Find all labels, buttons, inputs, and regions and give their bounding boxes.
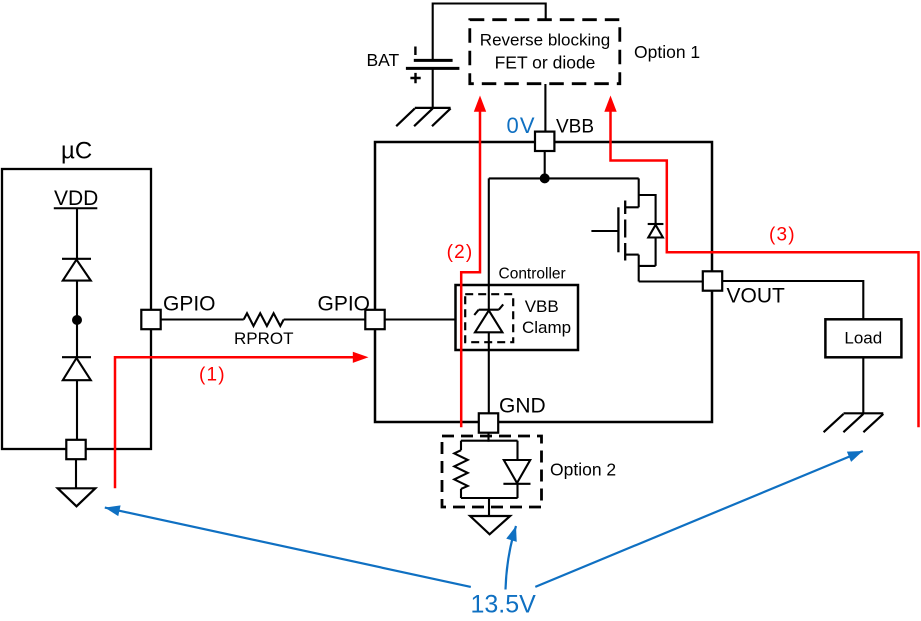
svg-text:Clamp: Clamp <box>522 318 571 337</box>
svg-text:Reverse blocking: Reverse blocking <box>480 31 610 50</box>
svg-text:BAT: BAT <box>367 50 400 70</box>
svg-text:Option 1: Option 1 <box>634 42 700 62</box>
svg-text:GPIO: GPIO <box>163 293 216 316</box>
svg-text:Option 2: Option 2 <box>550 460 616 480</box>
svg-text:(2): (2) <box>447 242 474 263</box>
svg-text:µC: µC <box>61 138 92 165</box>
svg-text:VBB: VBB <box>525 297 559 316</box>
svg-text:RPROT: RPROT <box>234 329 294 348</box>
svg-text:VDD: VDD <box>54 187 98 210</box>
svg-text:Load: Load <box>844 329 882 348</box>
svg-text:(3): (3) <box>769 225 796 246</box>
svg-text:FET or diode: FET or diode <box>495 53 596 73</box>
svg-text:Controller: Controller <box>499 266 566 283</box>
svg-text:(1): (1) <box>199 365 226 386</box>
svg-text:VOUT: VOUT <box>727 285 786 308</box>
svg-text:GND: GND <box>499 395 546 418</box>
svg-text:0V: 0V <box>507 113 536 138</box>
svg-text:GPIO: GPIO <box>318 293 371 316</box>
svg-text:13.5V: 13.5V <box>471 591 537 619</box>
svg-text:VBB: VBB <box>556 117 594 138</box>
